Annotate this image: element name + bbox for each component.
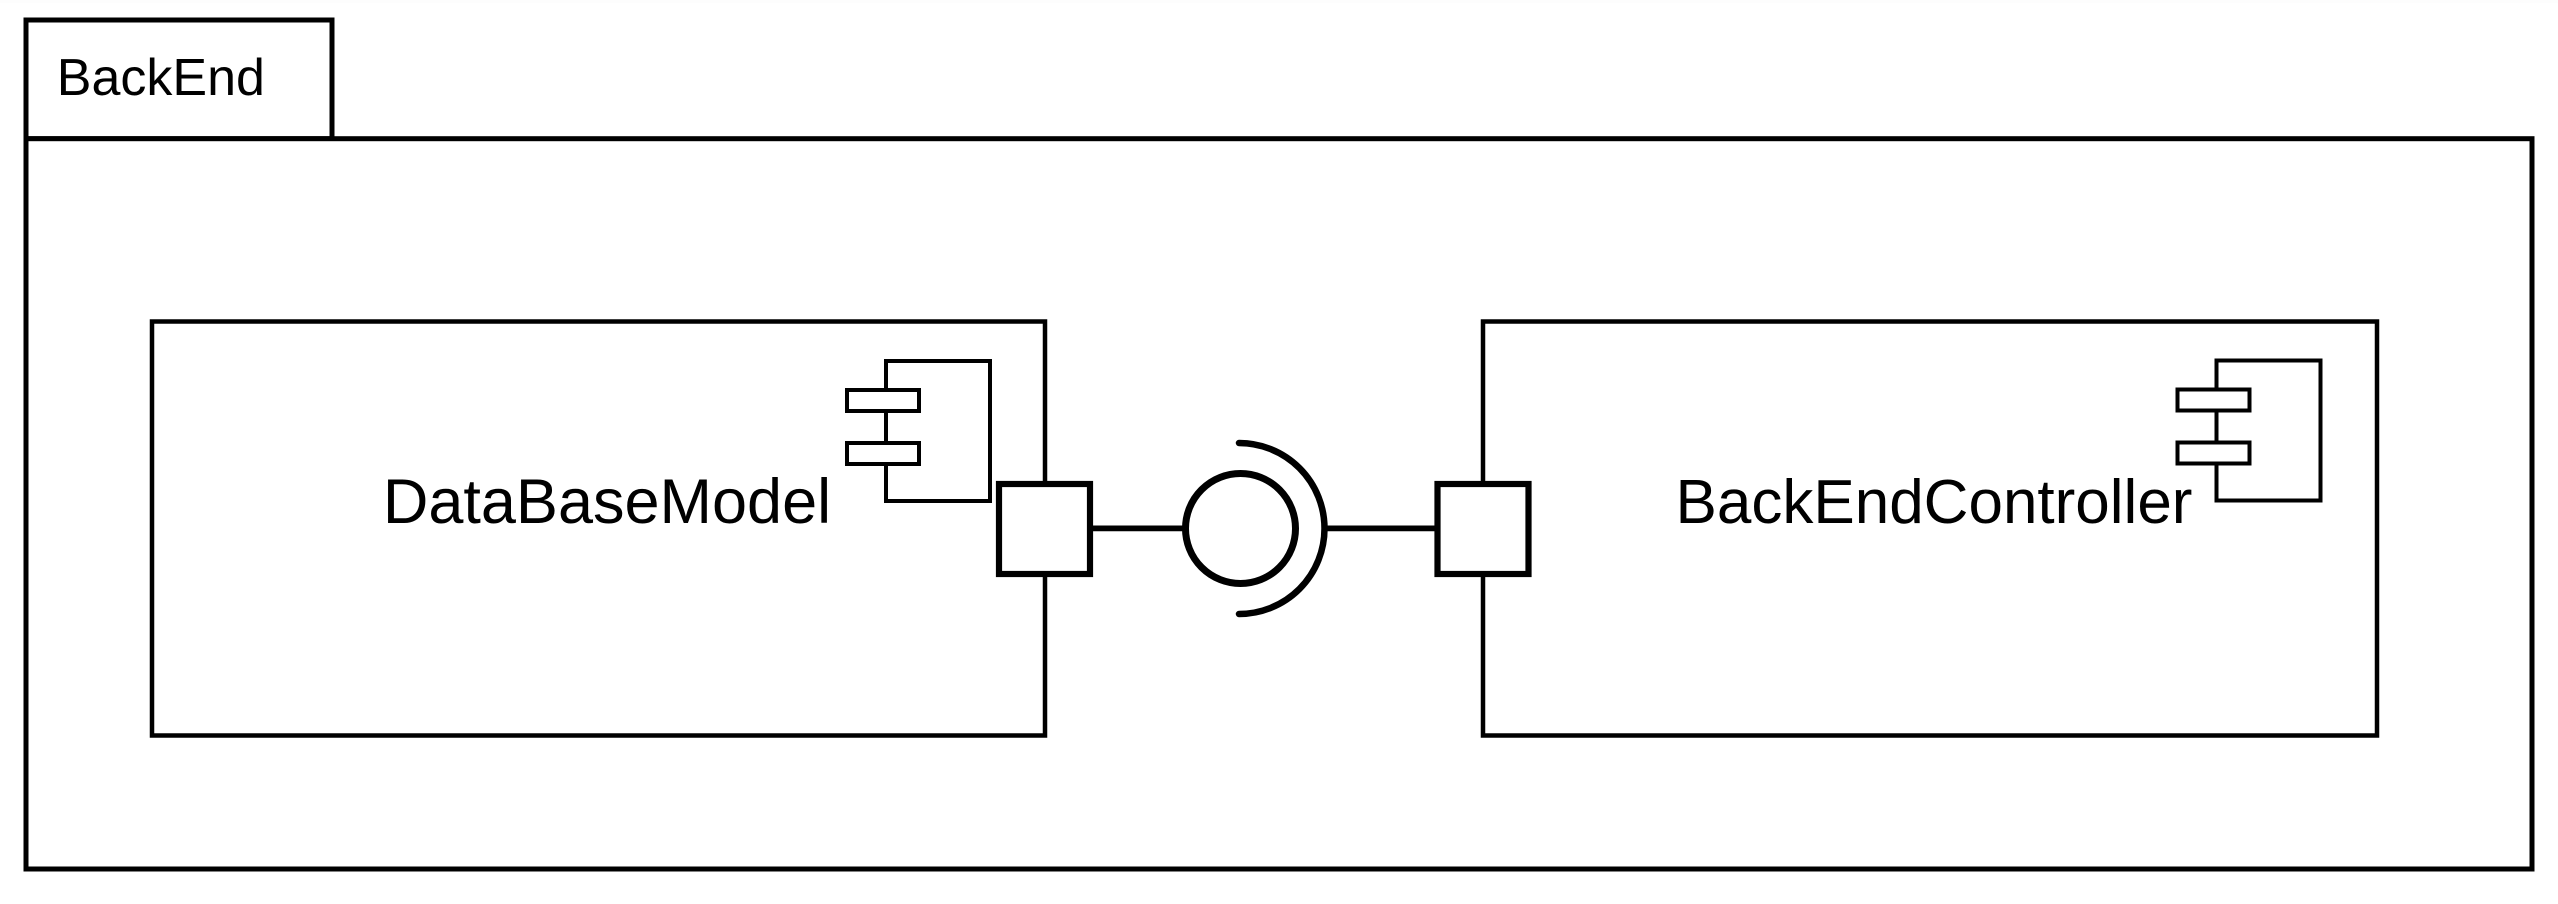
package BackEnd tab <box>26 20 332 139</box>
package BackEnd body <box>26 139 2532 869</box>
port square on BackEndController <box>1438 484 1529 574</box>
svg-text:BackEnd: BackEnd <box>57 49 265 107</box>
svg-text:BackEndController: BackEndController <box>1676 468 2193 537</box>
ball provided interface <box>1186 474 1296 584</box>
component icon DataBaseModel <box>847 361 990 501</box>
socket required interface <box>1239 443 1325 614</box>
wire from DataBaseModel port to ball <box>1091 526 1188 532</box>
component icon BackEndController <box>2178 361 2321 501</box>
component BackEndController box <box>1483 322 2377 736</box>
wire from socket to BackEndController port <box>1322 526 1440 532</box>
svg-text:DataBaseModel: DataBaseModel <box>383 467 831 537</box>
component DataBaseModel box <box>152 322 1045 736</box>
port square on DataBaseModel <box>999 484 1090 574</box>
top screenshot strip <box>0 0 2558 3</box>
